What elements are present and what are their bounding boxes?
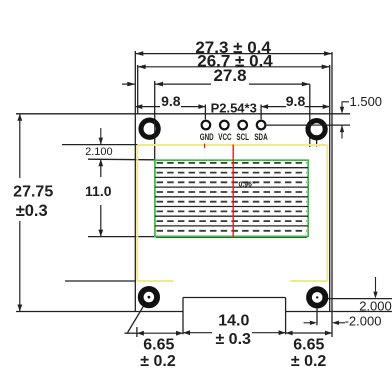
dimension 6.65 +/- 0.2 left	[137, 331, 183, 336]
wire extension left 6.65	[136, 327, 138, 337]
dimension 14.0 +/- 0.3	[183, 330, 286, 335]
wire board right edge outer	[331, 52, 333, 337]
wire tab right edge	[285, 298, 287, 335]
svg-text:VCC: VCC	[218, 132, 232, 142]
wire bottom-right hole center vertical	[316, 299, 318, 326]
svg-text:14.0: 14.0	[218, 312, 249, 329]
wire board left edge	[134, 51, 136, 312]
svg-text:± 0.3: ± 0.3	[215, 331, 251, 348]
node mounting hole top-left	[141, 120, 158, 137]
wire pin row line through right hole	[305, 124, 330, 126]
node pin SCL	[238, 121, 247, 130]
wire bottom-left hole leader diagonal	[127, 297, 148, 333]
node green display outline	[155, 160, 308, 236]
dimension 11.0	[98, 159, 103, 236]
svg-text:6.65: 6.65	[143, 336, 174, 353]
dimension 9.8 left	[135, 104, 205, 109]
svg-text:6.65: 6.65	[293, 336, 324, 353]
wire board right edge inner	[329, 65, 331, 312]
svg-text:P2.54*3: P2.54*3	[211, 100, 257, 115]
wire board bottom edge right	[286, 311, 392, 313]
svg-text:9.8: 9.8	[286, 93, 306, 109]
dimension 2.100	[99, 128, 103, 145]
dimension 9.8 right	[305, 104, 330, 109]
node pin VCC	[220, 121, 229, 130]
node yellow silkscreen rectangle	[137, 145, 327, 282]
svg-text:9.8: 9.8	[161, 93, 181, 109]
label pin names	[200, 132, 268, 142]
svg-text:GND: GND	[200, 132, 214, 142]
dimension 26.7 +/- 0.4	[138, 65, 330, 70]
dimension 27.75 +/- 0.3	[17, 114, 22, 312]
wire tab top edge	[183, 297, 286, 299]
node red display center line	[232, 145, 234, 238]
dimension 1.500	[340, 102, 349, 139]
svg-text:SCL: SCL	[236, 132, 249, 142]
svg-text:2.000: 2.000	[359, 298, 392, 313]
node mounting hole bottom-left	[141, 289, 157, 305]
dimension 27.3 +/- 0.4	[135, 51, 332, 56]
wire tab left edge	[182, 298, 184, 335]
wire top-right hole center vertical	[316, 138, 318, 147]
node display solid rows	[155, 168, 308, 226]
wire display top reference	[88, 158, 156, 161]
svg-text:1.500: 1.500	[350, 94, 383, 109]
wire yellow top extension	[62, 144, 138, 146]
dimension 2.000	[373, 277, 377, 299]
wire board bottom edge left	[16, 311, 183, 313]
svg-text:± 0.2: ± 0.2	[291, 353, 327, 370]
svg-text:11.0: 11.0	[85, 183, 112, 199]
svg-text:2.100: 2.100	[85, 146, 113, 158]
svg-text:0.96”: 0.96”	[238, 181, 255, 188]
svg-text:± 0.2: ± 0.2	[140, 353, 176, 370]
svg-text:27.8: 27.8	[213, 66, 246, 85]
wire GND pin extension	[204, 105, 206, 120]
wire display bottom reference	[88, 236, 156, 238]
wire SDA pin extension	[260, 105, 262, 120]
node mounting hole bottom-right	[309, 289, 325, 305]
dimension 6.65 +/- 0.2 right	[286, 331, 332, 336]
wire board top edge	[16, 113, 350, 115]
wire extension 26.7 left	[137, 65, 139, 114]
svg-text:SDA: SDA	[254, 132, 268, 142]
wire pin row line to right	[267, 124, 350, 126]
wire bottom-left leader tail	[124, 332, 136, 334]
svg-text:-2.000: -2.000	[345, 313, 382, 328]
node red tick at GND	[204, 144, 206, 149]
node mounting hole top-right	[308, 121, 325, 138]
dimension -2.000	[304, 321, 346, 325]
wire yellow bottom extension	[65, 280, 135, 282]
node pin SDA	[257, 121, 266, 130]
wire extension through left hole	[154, 81, 156, 160]
node display dashed rows	[157, 163, 307, 231]
node pin GND	[202, 121, 211, 130]
svg-text:±0.3: ±0.3	[16, 202, 48, 220]
wire bottom-right hole center horizontal	[317, 298, 392, 300]
wire extension through right hole	[309, 84, 311, 147]
svg-text:27.75: 27.75	[13, 184, 53, 201]
dimension 27.8	[122, 82, 310, 87]
